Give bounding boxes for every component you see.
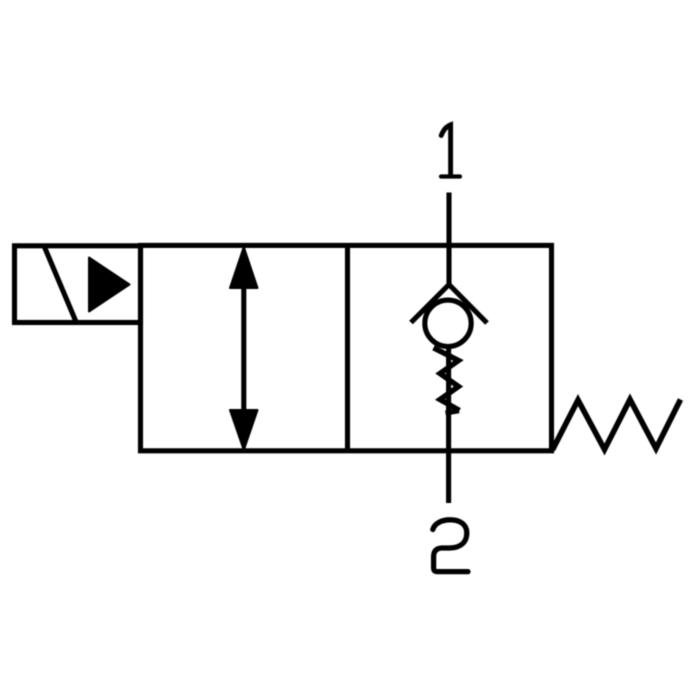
check valve spring (434, 348, 460, 411)
solenoid diagonal stroke (45, 248, 76, 322)
port label 1 (441, 125, 460, 177)
solenoid coil box (15, 246, 141, 323)
check valve spring end coil (446, 411, 460, 413)
port 1 wire (446, 193, 451, 287)
port 2 wire (446, 346, 451, 503)
valve envelope (141, 245, 552, 450)
check valve seat left (411, 285, 449, 323)
return spring (553, 400, 681, 450)
solenoid arrow triangle (89, 258, 130, 312)
check valve ball (425, 300, 471, 346)
two-way arrow shaft (241, 284, 246, 412)
port label 2 (433, 520, 468, 572)
check valve seat right (449, 285, 487, 324)
envelope divider line (345, 245, 350, 450)
arrowhead down (230, 410, 258, 450)
arrowhead up (230, 247, 258, 288)
